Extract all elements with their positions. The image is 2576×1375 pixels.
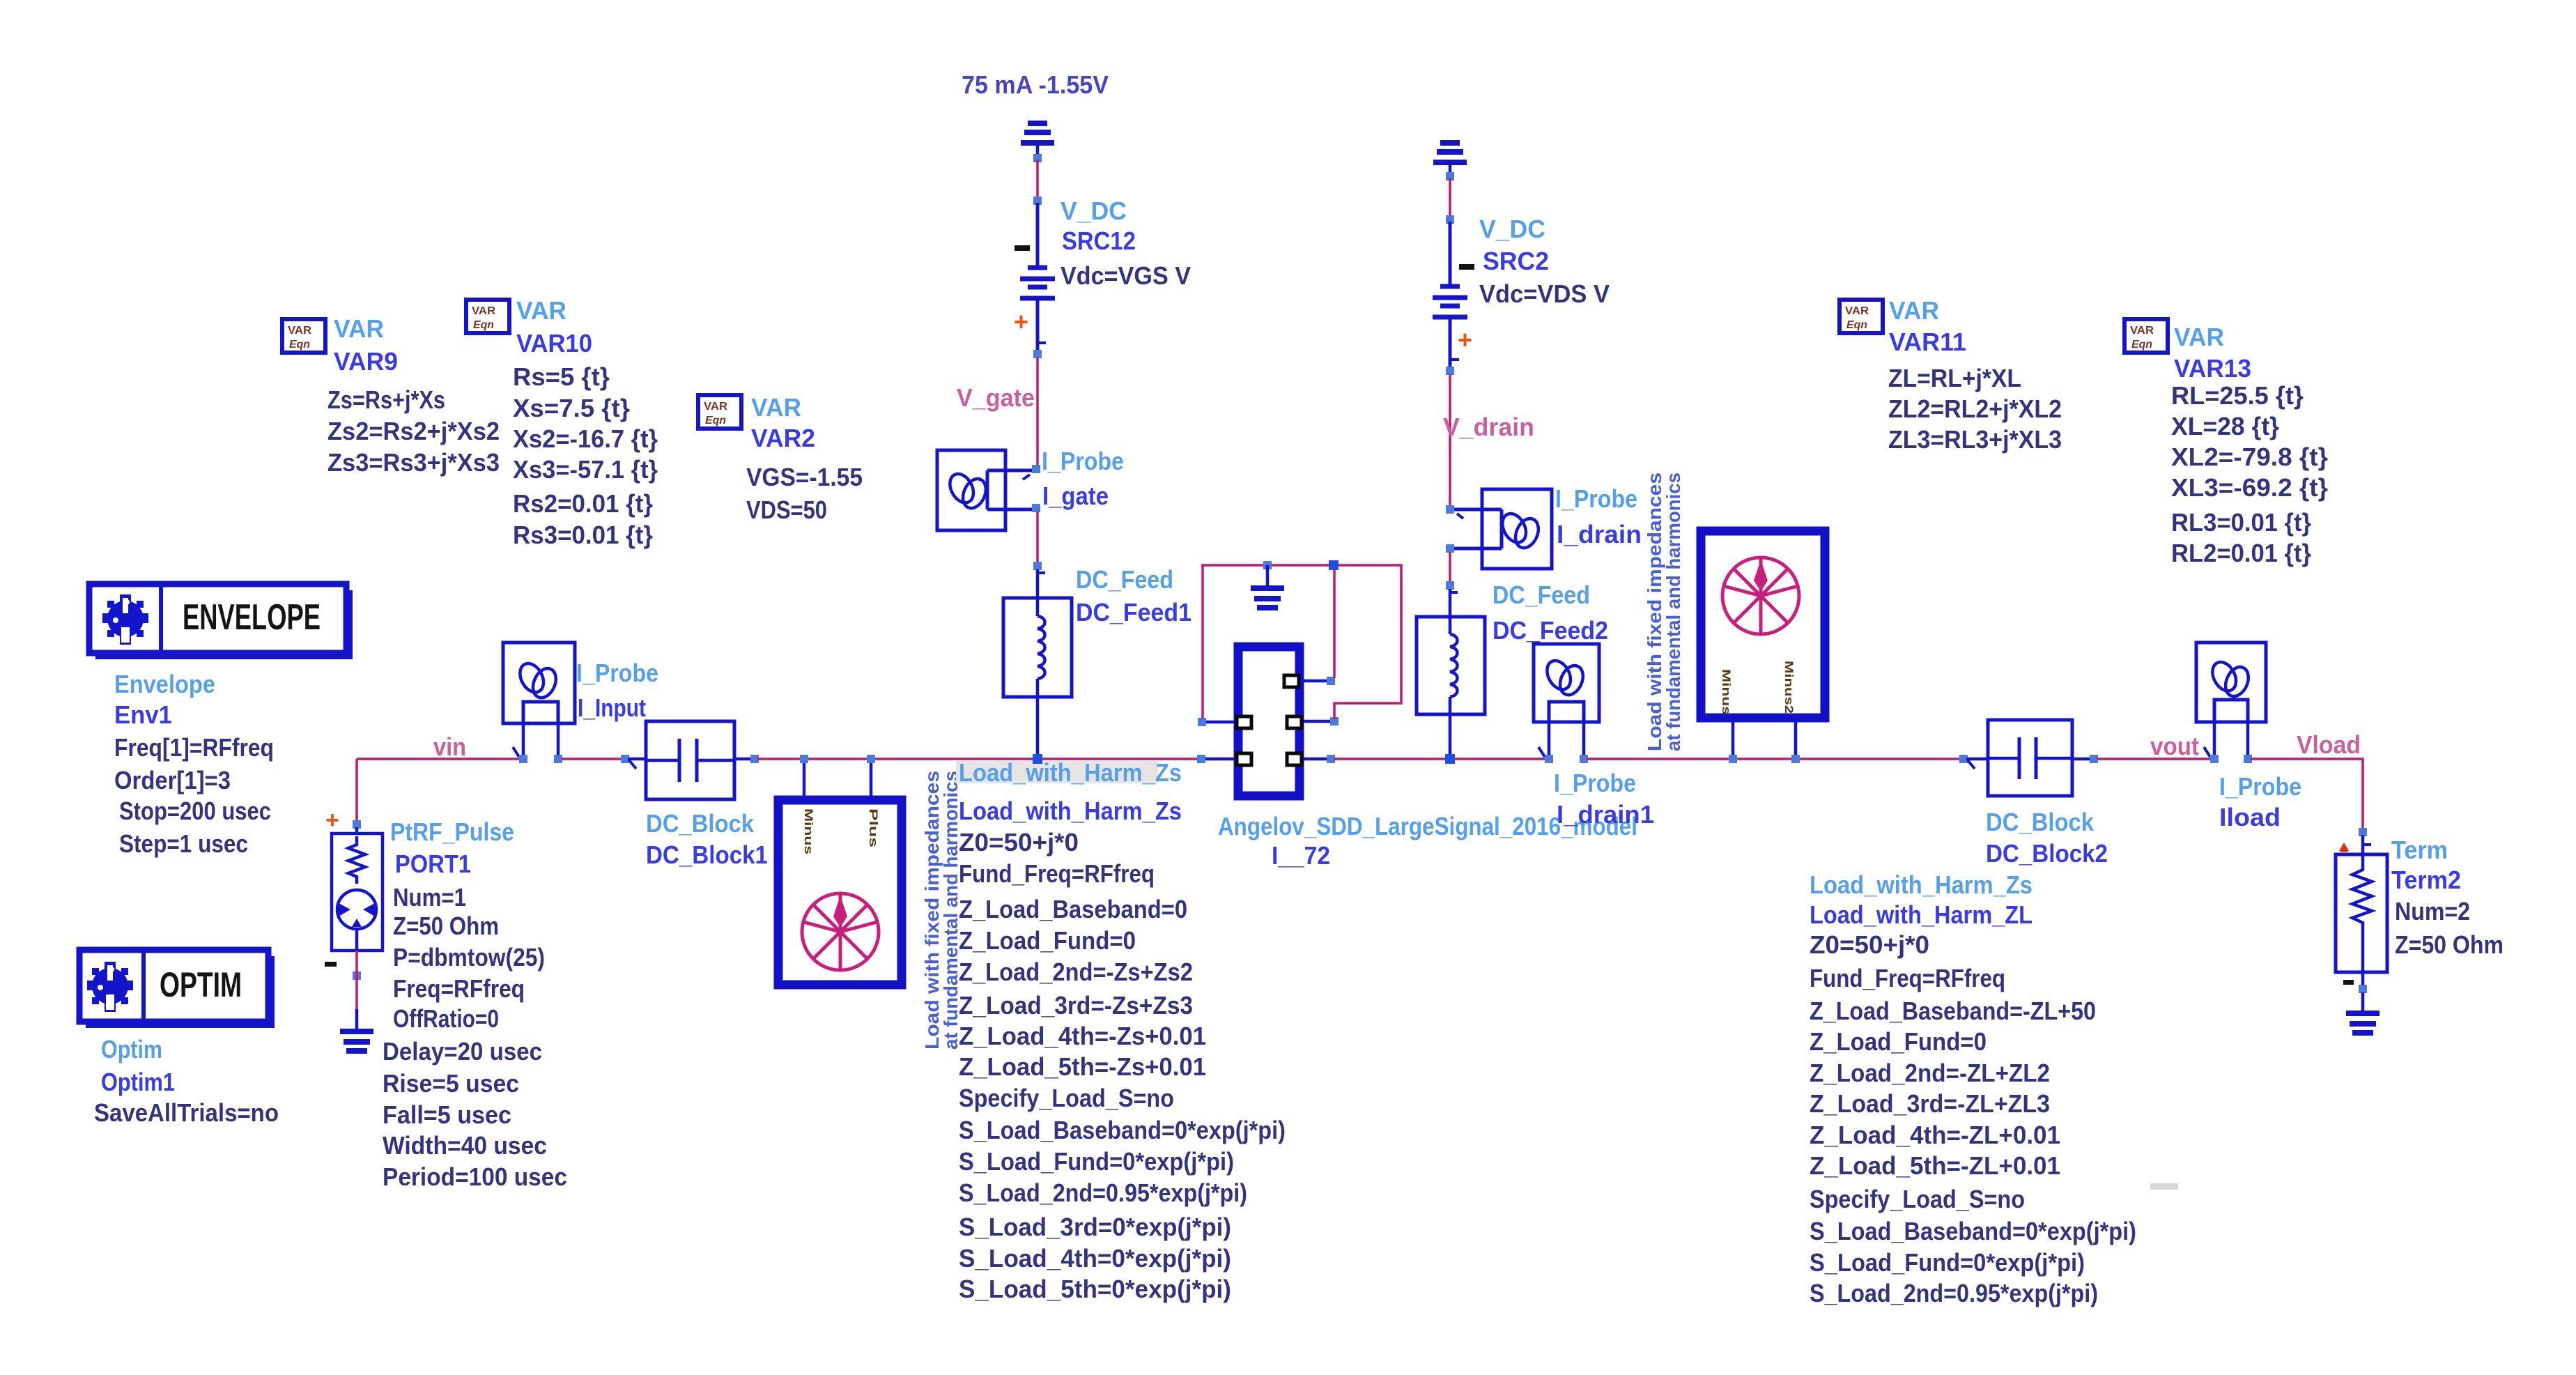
svg-text:ZL2=RL2+j*XL2: ZL2=RL2+j*XL2 — [1888, 394, 2062, 423]
node I_drain top — [1446, 505, 1454, 514]
node loop T junction — [1329, 560, 1339, 570]
svg-text:Z_Load_3rd=-ZL+ZL3: Z_Load_3rd=-ZL+ZL3 — [1810, 1089, 2050, 1118]
DC_Feed2 labels — [1493, 581, 1608, 645]
node transistor main right — [1327, 755, 1335, 763]
wire V_drain lower — [1449, 552, 1451, 583]
node Iload right — [2244, 755, 2252, 763]
wire main bus segment G to Term — [2251, 759, 2363, 829]
svg-text:Vdc=VGS V: Vdc=VGS V — [1061, 261, 1191, 290]
source V_DC SRC2 — [1433, 222, 1474, 367]
svg-text:V_gate: V_gate — [957, 383, 1035, 412]
node DC_Block2 left pin — [1959, 755, 1968, 763]
wire gnd to SRC12 — [1036, 160, 1039, 198]
svg-text:Z_Load_Fund=0: Z_Load_Fund=0 — [1810, 1027, 1987, 1056]
svg-text:I_gate: I_gate — [1042, 482, 1109, 510]
svg-text:VDS=50: VDS=50 — [746, 496, 827, 524]
svg-text:ENVELOPE: ENVELOPE — [183, 597, 321, 638]
svg-text:SaveAllTrials=no: SaveAllTrials=no — [94, 1098, 279, 1127]
svg-text:DC_Feed2: DC_Feed2 — [1493, 616, 1608, 645]
svg-text:P=dbmtow(25): P=dbmtow(25) — [393, 943, 545, 971]
svg-text:VAR2: VAR2 — [751, 424, 815, 452]
node DC_Block1 left pin — [621, 755, 629, 763]
node Term bottom — [2359, 985, 2367, 993]
svg-text:Optim: Optim — [101, 1035, 162, 1063]
svg-text:VAR13: VAR13 — [2174, 354, 2251, 383]
probe Iload — [2196, 643, 2266, 757]
svg-text:DC_Block: DC_Block — [1986, 808, 2095, 836]
svg-text:Z_Load_5th=-ZL+0.01: Z_Load_5th=-ZL+0.01 — [1810, 1151, 2060, 1180]
svg-text:SRC12: SRC12 — [1062, 226, 1136, 255]
wire main bus segment A — [357, 758, 520, 760]
svg-text:Z_Load_Baseband=-ZL+50: Z_Load_Baseband=-ZL+50 — [1810, 997, 2096, 1025]
svg-text:DC_Block2: DC_Block2 — [1986, 839, 2108, 868]
svg-text:I_Probe: I_Probe — [1554, 769, 1636, 797]
VAR11 equation block — [1840, 296, 2062, 454]
svg-text:V_DC: V_DC — [1061, 197, 1127, 225]
svg-text:VAR: VAR — [751, 393, 801, 422]
subcircuit Load_with_Harm_ZL output box — [1701, 531, 1825, 756]
ground below PORT1 — [340, 1009, 373, 1051]
node transistor main left — [1197, 755, 1205, 763]
svg-text:Num=2: Num=2 — [2395, 897, 2470, 925]
VAR2 equation block — [698, 393, 863, 524]
svg-text:I_Probe: I_Probe — [1555, 484, 1637, 513]
svg-text:V_DC: V_DC — [1479, 215, 1545, 243]
svg-text:vin: vin — [433, 732, 466, 761]
svg-text:OPTIM: OPTIM — [160, 965, 242, 1004]
svg-text:DC_Feed1: DC_Feed1 — [1076, 598, 1191, 627]
rotated caption Load1 — [921, 771, 962, 1050]
svg-text:Specify_Load_S=no: Specify_Load_S=no — [959, 1084, 1174, 1112]
node I_drain1 right — [1580, 755, 1588, 763]
svg-text:S_Load_Fund=0*exp(j*pi): S_Load_Fund=0*exp(j*pi) — [1810, 1248, 2085, 1277]
svg-text:Iload: Iload — [2219, 803, 2281, 831]
svg-text:Z=50 Ohm: Z=50 Ohm — [393, 912, 499, 940]
svg-text:SRC2: SRC2 — [1483, 247, 1549, 275]
node I_gate top — [1032, 465, 1040, 473]
svg-text:VGS=-1.55: VGS=-1.55 — [746, 463, 863, 491]
svg-text:VAR: VAR — [1889, 296, 1939, 325]
svg-text:Load_with_Harm_Zs: Load_with_Harm_Zs — [1810, 870, 2033, 899]
svg-text:+: + — [325, 807, 339, 834]
Optim1 labels — [94, 1035, 279, 1127]
svg-text:XL3=-69.2 {t}: XL3=-69.2 {t} — [2171, 473, 2328, 502]
probe I_drain — [1453, 489, 1552, 569]
node junction DC_Feed2 main bus — [1445, 754, 1455, 764]
svg-text:Fund_Freq=RFfreq: Fund_Freq=RFfreq — [959, 859, 1155, 888]
svg-text:Z_Load_3rd=-Zs+Zs3: Z_Load_3rd=-Zs+Zs3 — [959, 991, 1193, 1020]
node DC_Block2 right pin — [2090, 755, 2098, 763]
node junction DC_Feed1 main bus — [1033, 754, 1042, 764]
svg-text:XL2=-79.8 {t}: XL2=-79.8 {t} — [2171, 443, 2328, 471]
wire V_gate upper — [1036, 358, 1039, 466]
VAR9 equation block — [282, 314, 500, 477]
svg-text:ZL3=RL3+j*XL3: ZL3=RL3+j*XL3 — [1888, 425, 2062, 454]
svg-text:ZL=RL+j*XL: ZL=RL+j*XL — [1888, 364, 2021, 392]
wire main bus segment E — [1587, 758, 1961, 760]
svg-text:S_Load_Baseband=0*exp(j*pi): S_Load_Baseband=0*exp(j*pi) — [1810, 1217, 2136, 1245]
Envelope Env1 labels — [114, 670, 274, 858]
svg-text:VAR10: VAR10 — [516, 329, 592, 358]
svg-text:XL=28 {t}: XL=28 {t} — [2171, 412, 2279, 440]
controller ENVELOPE box — [89, 584, 353, 659]
node SRC2 gnd — [1446, 172, 1454, 180]
svg-text:vout: vout — [2150, 732, 2199, 760]
svg-text:Freq=RFfreq: Freq=RFfreq — [393, 974, 525, 1003]
svg-text:Stop=200 usec: Stop=200 usec — [119, 797, 271, 825]
svg-text:Load_with_Harm_Zs: Load_with_Harm_Zs — [959, 797, 1182, 825]
wire port to ground — [355, 951, 358, 1009]
svg-text:V_drain: V_drain — [1443, 413, 1534, 441]
DC_Feed1 labels — [1076, 565, 1191, 627]
node I_gate bottom — [1032, 504, 1040, 512]
svg-text:Delay=20 usec: Delay=20 usec — [383, 1037, 542, 1066]
node I_Input right — [554, 755, 562, 763]
svg-text:VAR9: VAR9 — [334, 347, 398, 376]
node I_drain bottom — [1446, 544, 1454, 553]
svg-text:Vdc=VDS V: Vdc=VDS V — [1479, 279, 1610, 308]
svg-text:RL3=0.01 {t}: RL3=0.01 {t} — [2171, 508, 2311, 537]
node Load1 pin1 — [800, 755, 808, 763]
svg-text:RL=25.5 {t}: RL=25.5 {t} — [2171, 381, 2304, 410]
svg-text:Rs2=0.01 {t}: Rs2=0.01 {t} — [513, 489, 653, 518]
svg-text:DC_Block1: DC_Block1 — [646, 840, 768, 869]
svg-text:+: + — [1014, 307, 1028, 336]
node I_Input left — [519, 755, 527, 763]
svg-text:Rise=5 usec: Rise=5 usec — [383, 1069, 519, 1098]
svg-text:Z_Load_Baseband=0: Z_Load_Baseband=0 — [959, 895, 1187, 923]
svg-text:Width=40 usec: Width=40 usec — [383, 1131, 547, 1160]
node DC_Feed1 top pin — [1033, 562, 1042, 570]
svg-text:Z=50 Ohm: Z=50 Ohm — [2395, 930, 2504, 959]
svg-text:Envelope: Envelope — [114, 670, 215, 698]
Iload labels — [2219, 772, 2301, 831]
node SRC2 minus pin — [1446, 367, 1454, 375]
svg-text:Optim1: Optim1 — [101, 1068, 175, 1096]
svg-text:Z_Load_5th=-Zs+0.01: Z_Load_5th=-Zs+0.01 — [959, 1052, 1206, 1081]
source PORT1 PtRF_Pulse — [325, 807, 383, 967]
svg-text:Xs=7.5 {t}: Xs=7.5 {t} — [513, 394, 630, 422]
svg-text:S_Load_2nd=0.95*exp(j*pi): S_Load_2nd=0.95*exp(j*pi) — [959, 1178, 1247, 1207]
svg-text:Minus: Minus — [802, 808, 815, 854]
ground below Term2 — [2346, 992, 2380, 1033]
Load1 parameter list — [956, 758, 1286, 1303]
svg-text:Xs2=-16.7 {t}: Xs2=-16.7 {t} — [513, 424, 658, 453]
Load2 parameter list — [1810, 870, 2178, 1307]
node DC_Feed2 top pin — [1446, 581, 1454, 590]
capacitor DC_Block2 — [1966, 720, 2091, 796]
svg-text:Step=1 usec: Step=1 usec — [119, 829, 248, 858]
svg-text:Rs=5 {t}: Rs=5 {t} — [513, 362, 610, 391]
svg-text:VAR: VAR — [516, 296, 566, 325]
svg-text:I__72: I__72 — [1272, 841, 1330, 870]
node DC_Block1 right pin — [750, 755, 759, 763]
VAR13 equation block — [2124, 319, 2328, 567]
svg-text:I_Input: I_Input — [578, 693, 646, 722]
svg-text:S_Load_3rd=0*exp(j*pi): S_Load_3rd=0*exp(j*pi) — [959, 1213, 1231, 1241]
SRC12 labels — [1061, 197, 1191, 290]
transistor Angelov I__72 box — [1204, 647, 1332, 796]
probe I_Input — [503, 643, 575, 757]
svg-text:Minus: Minus — [1720, 669, 1733, 715]
svg-text:Specify_Load_S=no: Specify_Load_S=no — [1810, 1185, 2025, 1213]
node SRC12 gnd — [1033, 154, 1042, 162]
controller OPTIM box — [79, 950, 275, 1028]
ground on feedback loop — [1251, 565, 1284, 608]
svg-text:I_Probe: I_Probe — [2219, 772, 2301, 801]
node port bottom — [353, 971, 361, 980]
wire vin vertical from source to main bus — [355, 759, 358, 821]
svg-text:PtRF_Pulse: PtRF_Pulse — [390, 817, 514, 846]
SRC2 labels — [1479, 215, 1610, 308]
svg-text:DC_Block: DC_Block — [646, 809, 755, 838]
svg-text:at fundamental and harmonics: at fundamental and harmonics — [1663, 473, 1684, 751]
svg-text:I_Probe: I_Probe — [576, 659, 658, 687]
DC_Block2 labels — [1986, 808, 2108, 868]
I_gate labels — [1042, 447, 1124, 510]
wire V_gate lower — [1036, 512, 1039, 562]
rotated caption Load2 — [1644, 473, 1684, 751]
node transistor feedback mid — [1330, 717, 1339, 725]
svg-text:Period=100 usec: Period=100 usec — [383, 1162, 567, 1191]
svg-text:Z_Load_2nd=-Zs+Zs2: Z_Load_2nd=-Zs+Zs2 — [959, 958, 1193, 986]
svg-text:DC_Feed: DC_Feed — [1076, 565, 1173, 594]
I_drain1 labels — [1554, 769, 1654, 829]
wire main bus segment D — [1334, 758, 1545, 760]
svg-text:Env1: Env1 — [114, 700, 172, 729]
svg-text:Order[1]=3: Order[1]=3 — [114, 766, 231, 794]
svg-text:S_Load_4th=0*exp(j*pi): S_Load_4th=0*exp(j*pi) — [959, 1244, 1231, 1273]
node SRC12 minus pin — [1033, 350, 1042, 358]
probe I_gate — [937, 450, 1033, 530]
svg-text:OffRatio=0: OffRatio=0 — [393, 1004, 499, 1033]
node Term top — [2359, 828, 2367, 836]
Term2 labels — [2391, 836, 2504, 959]
svg-text:PORT1: PORT1 — [395, 850, 471, 878]
svg-text:Minus2: Minus2 — [1782, 661, 1796, 714]
DC_Block1 labels — [646, 809, 768, 869]
node transistor feedback top — [1327, 677, 1335, 685]
probe I_drain1 — [1534, 644, 1599, 757]
svg-text:Term2: Term2 — [2391, 866, 2461, 894]
node I_drain1 left — [1545, 755, 1553, 763]
svg-text:Plus: Plus — [867, 808, 880, 847]
svg-text:VAR: VAR — [2174, 323, 2224, 351]
svg-text:Z0=50+j*0: Z0=50+j*0 — [1810, 930, 1929, 959]
capacitor DC_Block1 — [628, 721, 752, 799]
node SRC2 plus pin — [1446, 215, 1454, 224]
svg-text:S_Load_5th=0*exp(j*pi): S_Load_5th=0*exp(j*pi) — [959, 1275, 1231, 1303]
ground above SRC2 — [1433, 143, 1467, 174]
I_Input labels — [576, 659, 658, 722]
node Load2 pin1 — [1729, 755, 1737, 763]
source V_DC SRC12 — [1014, 203, 1055, 351]
wire V_drain upper — [1449, 374, 1451, 507]
subcircuit Load_with_Harm_Zs input box — [778, 762, 902, 985]
svg-text:Z_Load_4th=-Zs+0.01: Z_Load_4th=-Zs+0.01 — [959, 1022, 1206, 1050]
node Load2 pin2 — [1791, 755, 1800, 763]
svg-text:Vload: Vload — [2297, 730, 2361, 759]
node Load1 pin2 — [867, 755, 875, 763]
svg-text:Term: Term — [2391, 836, 2448, 864]
svg-text:Rs3=0.01 {t}: Rs3=0.01 {t} — [513, 521, 653, 549]
Angelov labels — [1218, 812, 1637, 870]
wire feedback loop — [1203, 565, 1401, 719]
node port top — [353, 820, 361, 829]
svg-text:Zs2=Rs2+j*Xs2: Zs2=Rs2+j*Xs2 — [327, 417, 500, 445]
wire main bus segment F — [2097, 758, 2212, 760]
node transistor gate — [1198, 718, 1206, 726]
svg-text:RL2=0.01 {t}: RL2=0.01 {t} — [2171, 539, 2311, 567]
svg-text:75 mA -1.55V: 75 mA -1.55V — [962, 70, 1109, 99]
svg-text:VAR11: VAR11 — [1889, 328, 1966, 356]
svg-text:I_drain: I_drain — [1557, 520, 1642, 548]
svg-text:VAR: VAR — [334, 314, 384, 343]
svg-text:Z_Load_4th=-ZL+0.01: Z_Load_4th=-ZL+0.01 — [1810, 1121, 2060, 1149]
svg-text:Z_Load_Fund=0: Z_Load_Fund=0 — [959, 926, 1136, 955]
inductor DC_Feed1 — [1003, 569, 1072, 756]
svg-text:Z0=50+j*0: Z0=50+j*0 — [959, 828, 1079, 857]
svg-text:Num=1: Num=1 — [393, 883, 466, 912]
svg-text:Fall=5 usec: Fall=5 usec — [383, 1100, 511, 1129]
svg-text:I_drain1: I_drain1 — [1557, 800, 1654, 829]
ground above SRC12 — [1021, 123, 1054, 155]
inductor DC_Feed2 — [1417, 589, 1485, 756]
svg-text:I_Probe: I_Probe — [1042, 447, 1124, 475]
node SRC12 plus pin — [1033, 197, 1042, 205]
PORT1 labels — [383, 817, 567, 1191]
wire gnd to SRC2 — [1449, 178, 1451, 217]
svg-text:S_Load_Baseband=0*exp(j*pi): S_Load_Baseband=0*exp(j*pi) — [959, 1116, 1286, 1144]
svg-text:Xs3=-57.1 {t}: Xs3=-57.1 {t} — [513, 455, 658, 484]
svg-text:Zs=Rs+j*Xs: Zs=Rs+j*Xs — [327, 385, 445, 414]
svg-text:Load_with_Harm_ZL: Load_with_Harm_ZL — [1810, 900, 2033, 929]
svg-text:S_Load_Fund=0*exp(j*pi): S_Load_Fund=0*exp(j*pi) — [959, 1147, 1234, 1176]
svg-text:DC_Feed: DC_Feed — [1493, 581, 1590, 609]
svg-text:+: + — [1458, 325, 1472, 354]
wire main bus segment B — [562, 758, 622, 760]
node Iload left — [2210, 755, 2219, 763]
terminator Term2 — [2336, 835, 2387, 985]
I_drain labels — [1555, 484, 1642, 548]
svg-text:Z_Load_2nd=-ZL+ZL2: Z_Load_2nd=-ZL+ZL2 — [1810, 1059, 2050, 1087]
svg-text:Zs3=Rs3+j*Xs3: Zs3=Rs3+j*Xs3 — [327, 448, 500, 477]
node loop ground tap — [1263, 561, 1272, 569]
svg-text:S_Load_2nd=0.95*exp(j*pi): S_Load_2nd=0.95*exp(j*pi) — [1810, 1279, 2098, 1307]
svg-text:Fund_Freq=RFfreq: Fund_Freq=RFfreq — [1810, 964, 2005, 992]
VAR10 equation block — [466, 296, 658, 549]
svg-text:Freq[1]=RFfreq: Freq[1]=RFfreq — [114, 733, 274, 762]
svg-text:Load_with_Harm_Zs: Load_with_Harm_Zs — [959, 758, 1182, 787]
wire main bus segment C — [757, 758, 1198, 760]
